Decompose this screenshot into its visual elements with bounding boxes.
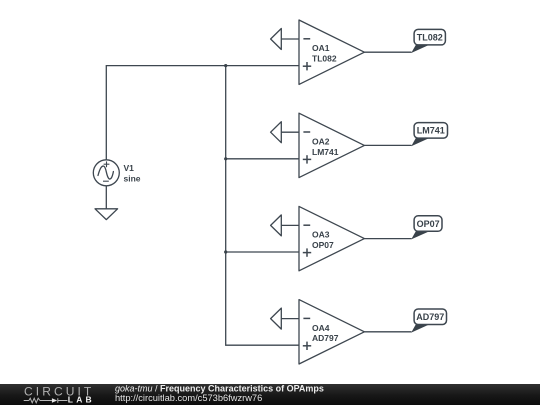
svg-text:OA4: OA4	[312, 323, 330, 333]
svg-text:OA3: OA3	[312, 230, 330, 240]
svg-text:sine: sine	[124, 173, 141, 183]
svg-text:LM741: LM741	[417, 126, 445, 136]
svg-text:TL082: TL082	[312, 54, 337, 64]
svg-text:TL082: TL082	[417, 33, 443, 43]
svg-text:OP07: OP07	[312, 240, 334, 250]
svg-text:OA1: OA1	[312, 43, 330, 53]
svg-text:OA2: OA2	[312, 136, 330, 146]
svg-text:OP07: OP07	[417, 219, 440, 229]
svg-text:AD797: AD797	[416, 312, 444, 322]
svg-text:LM741: LM741	[312, 147, 339, 157]
svg-text:http://circuitlab.com/c573b6fw: http://circuitlab.com/c573b6fwzrw76	[115, 393, 262, 403]
svg-text:LAB: LAB	[68, 395, 95, 405]
svg-text:V1: V1	[124, 163, 135, 173]
svg-text:AD797: AD797	[312, 333, 339, 343]
